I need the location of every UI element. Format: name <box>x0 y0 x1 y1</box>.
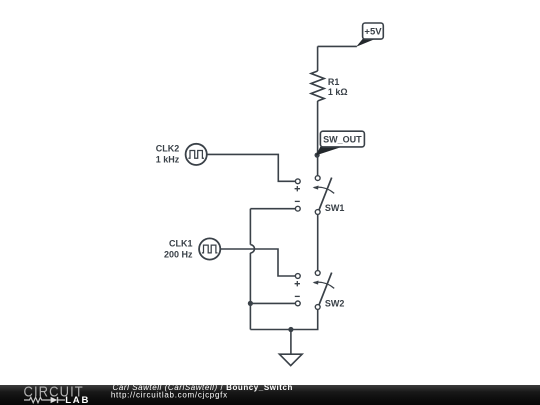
footer logo resistor-diode-LAB <box>24 397 65 403</box>
switch SW1 control terminals <box>295 179 301 211</box>
wire CLK2 to corner to SW1 plus <box>207 154 296 181</box>
clock source CLK2 <box>186 144 207 165</box>
switch SW2 <box>313 271 335 310</box>
wire bottom from rail to SW2 bottom <box>250 309 317 329</box>
wire resistor to SW1 <box>317 101 319 176</box>
clock source CLK1 <box>199 238 220 259</box>
svg-text:SW2: SW2 <box>325 298 345 308</box>
svg-text:1 kHz: 1 kHz <box>156 155 180 165</box>
svg-text:SW_OUT: SW_OUT <box>323 135 362 145</box>
wire left rail lower segment <box>249 253 251 330</box>
svg-text:CLK2: CLK2 <box>156 144 180 154</box>
resistor R1 <box>311 71 324 101</box>
wire left rail upper segment <box>249 209 251 245</box>
wire hop over CLK1 wire <box>250 245 254 253</box>
ground <box>279 354 302 365</box>
flag SW_OUT <box>316 131 365 155</box>
svg-text:SW1: SW1 <box>325 203 345 213</box>
svg-text:LAB: LAB <box>65 395 90 405</box>
svg-text:CLK1: CLK1 <box>169 239 193 249</box>
wire CLK1 to corner to SW2 plus <box>220 249 295 276</box>
footer logo CIRCUIT <box>24 382 84 399</box>
switch SW1 <box>313 176 335 215</box>
wire SW1 minus to left rail <box>250 208 295 210</box>
node SW_OUT junction dot <box>315 153 320 158</box>
footer bar <box>0 385 540 405</box>
flag +5V <box>356 23 383 47</box>
wire rail down to resistor <box>317 46 319 71</box>
wire SW2 minus to left rail <box>250 302 295 304</box>
svg-text:R1: R1 <box>328 77 340 87</box>
svg-text:+5V: +5V <box>364 27 382 38</box>
node ground junction dot <box>288 327 293 332</box>
wire top horizontal from +5V flag to rail <box>318 45 357 47</box>
switch SW2 control terminals <box>295 274 301 306</box>
wire SW1 bottom to SW2 top <box>317 214 319 270</box>
node left rail / SW2 minus junction dot <box>248 301 253 306</box>
svg-text:200 Hz: 200 Hz <box>164 250 193 260</box>
wire ground stem <box>290 330 292 355</box>
svg-text:http://circuitlab.com/cjcpgfx: http://circuitlab.com/cjcpgfx <box>111 391 228 400</box>
svg-text:1 kΩ: 1 kΩ <box>328 87 348 97</box>
